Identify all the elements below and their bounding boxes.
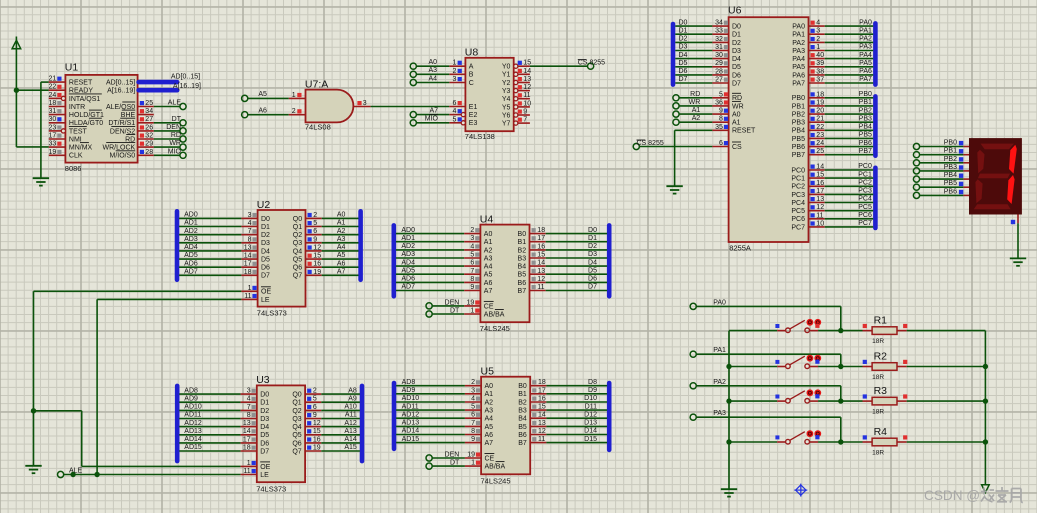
svg-text:A1: A1: [337, 220, 346, 227]
svg-text:D4: D4: [732, 56, 741, 63]
svg-text:NMI: NMI: [69, 136, 82, 143]
svg-text:PB4: PB4: [792, 128, 805, 135]
svg-text:MIO: MIO: [425, 116, 439, 123]
svg-text:31: 31: [49, 108, 57, 115]
svg-text:D6: D6: [732, 72, 741, 79]
svg-text:7: 7: [247, 404, 251, 411]
svg-text:AD4: AD4: [184, 244, 198, 251]
svg-text:6: 6: [470, 260, 474, 267]
svg-text:A5: A5: [337, 252, 346, 259]
svg-text:7: 7: [471, 420, 475, 427]
svg-text:2: 2: [816, 36, 820, 43]
svg-text:Q3: Q3: [293, 240, 302, 247]
svg-text:13: 13: [243, 420, 251, 427]
svg-text:8: 8: [470, 276, 474, 283]
svg-text:74LS373: 74LS373: [256, 484, 286, 493]
svg-text:23: 23: [49, 124, 57, 131]
svg-text:D3: D3: [588, 251, 597, 258]
svg-text:DT: DT: [450, 460, 460, 467]
svg-text:Q7: Q7: [292, 448, 301, 455]
svg-text:A0: A0: [337, 212, 346, 219]
svg-text:17: 17: [244, 261, 252, 268]
svg-text:3: 3: [248, 212, 252, 219]
svg-text:D7: D7: [732, 80, 741, 87]
svg-text:A[16..19]: A[16..19]: [173, 83, 201, 90]
svg-text:A13: A13: [344, 428, 357, 435]
svg-text:PA3: PA3: [859, 44, 872, 51]
svg-text:DT: DT: [172, 116, 182, 123]
svg-text:AD7: AD7: [401, 284, 415, 291]
svg-text:D1: D1: [679, 27, 688, 34]
svg-text:CE: CE: [485, 455, 495, 462]
svg-text:LE: LE: [261, 297, 270, 304]
svg-text:7: 7: [523, 117, 527, 124]
svg-text:Q7: Q7: [293, 273, 302, 280]
svg-text:PA0: PA0: [713, 299, 726, 306]
svg-text:25: 25: [816, 148, 824, 155]
svg-text:ALE: ALE: [168, 100, 182, 107]
svg-text:A11: A11: [345, 412, 357, 419]
svg-text:Y6: Y6: [502, 112, 511, 119]
svg-text:U3: U3: [256, 374, 270, 386]
svg-text:PB5: PB5: [859, 132, 872, 139]
svg-text:RESET: RESET: [69, 80, 93, 87]
svg-text:B3: B3: [518, 408, 527, 415]
svg-text:16: 16: [313, 261, 321, 268]
svg-text:INTA/QS1: INTA/QS1: [69, 96, 100, 103]
svg-text:A0: A0: [485, 383, 494, 390]
svg-text:1: 1: [247, 460, 251, 467]
svg-text:A[16..19]: A[16..19]: [107, 88, 135, 95]
svg-text:PB2: PB2: [792, 112, 805, 119]
svg-text:D8: D8: [588, 379, 597, 386]
svg-text:Y1: Y1: [502, 72, 511, 79]
svg-text:D5: D5: [679, 60, 688, 67]
svg-text:D15: D15: [584, 436, 597, 443]
svg-text:D5: D5: [588, 267, 597, 274]
svg-text:A7: A7: [337, 269, 346, 276]
svg-text:AD9: AD9: [184, 395, 198, 402]
svg-text:19: 19: [467, 452, 475, 459]
svg-text:B2: B2: [518, 247, 527, 254]
svg-text:D6: D6: [588, 276, 597, 283]
svg-text:AD14: AD14: [184, 436, 202, 443]
svg-text:20: 20: [816, 108, 824, 115]
svg-text:PC3: PC3: [858, 188, 872, 195]
svg-text:AD7: AD7: [184, 269, 198, 276]
svg-text:WR: WR: [732, 103, 744, 110]
svg-text:13: 13: [523, 76, 531, 83]
svg-text:A1: A1: [485, 391, 494, 398]
svg-text:WR: WR: [169, 140, 181, 147]
svg-text:30: 30: [49, 116, 57, 123]
svg-text:M/IO/S0: M/IO/S0: [110, 153, 136, 160]
svg-text:PA3: PA3: [713, 410, 726, 417]
svg-text:11: 11: [538, 436, 545, 443]
svg-text:AD[0..15]: AD[0..15]: [171, 74, 200, 81]
svg-text:AD15: AD15: [402, 436, 420, 443]
svg-text:PB1: PB1: [792, 103, 805, 110]
svg-text:1: 1: [471, 460, 475, 467]
svg-text:PA0: PA0: [859, 19, 872, 26]
svg-text:CLK: CLK: [69, 153, 83, 160]
svg-text:CS 8255: CS 8255: [637, 140, 664, 147]
svg-text:12: 12: [523, 84, 531, 91]
svg-text:PB0: PB0: [944, 140, 957, 147]
svg-text:D3: D3: [679, 44, 688, 51]
svg-text:A4: A4: [484, 264, 493, 271]
svg-text:R1: R1: [874, 315, 888, 327]
svg-text:D6: D6: [260, 440, 269, 447]
svg-text:D4: D4: [260, 424, 269, 431]
svg-text:D3: D3: [260, 416, 269, 423]
svg-text:A2: A2: [692, 115, 701, 122]
svg-text:AD1: AD1: [401, 235, 415, 242]
svg-text:5: 5: [313, 220, 317, 227]
svg-text:AD1: AD1: [184, 220, 198, 227]
svg-text:PC0: PC0: [791, 167, 805, 174]
svg-text:19: 19: [816, 99, 824, 106]
svg-text:D5: D5: [261, 256, 270, 263]
svg-text:12: 12: [313, 244, 321, 251]
svg-text:A3: A3: [485, 408, 494, 415]
svg-text:D4: D4: [261, 248, 270, 255]
svg-text:PA2: PA2: [713, 379, 726, 386]
svg-text:14: 14: [523, 68, 531, 75]
svg-text:A1: A1: [732, 120, 741, 127]
svg-text:A5: A5: [258, 91, 267, 98]
svg-text:PB1: PB1: [944, 148, 957, 155]
svg-text:DEN: DEN: [445, 299, 460, 306]
svg-text:B5: B5: [518, 424, 527, 431]
svg-text:12: 12: [816, 204, 824, 211]
svg-text:15: 15: [538, 404, 546, 411]
svg-text:B7: B7: [518, 440, 527, 447]
svg-text:28: 28: [715, 68, 723, 75]
svg-text:CSDN @: CSDN @: [924, 488, 980, 503]
svg-text:D9: D9: [588, 387, 597, 394]
svg-text:74LS08: 74LS08: [305, 123, 331, 132]
svg-text:A: A: [469, 64, 474, 71]
svg-text:AB/BA: AB/BA: [484, 311, 505, 318]
svg-text:4: 4: [452, 108, 456, 115]
svg-text:PC4: PC4: [858, 196, 872, 203]
svg-text:B6: B6: [518, 432, 527, 439]
svg-text:9: 9: [313, 412, 317, 419]
svg-text:PC5: PC5: [858, 204, 872, 211]
svg-text:13: 13: [537, 268, 545, 275]
svg-text:PA4: PA4: [859, 52, 872, 59]
svg-text:21: 21: [49, 76, 57, 83]
svg-text:A7: A7: [484, 288, 493, 295]
svg-text:28: 28: [145, 149, 153, 156]
svg-text:5: 5: [470, 252, 474, 259]
svg-text:AD15: AD15: [184, 444, 202, 451]
svg-text:10: 10: [523, 100, 531, 107]
svg-text:DEN: DEN: [445, 451, 460, 458]
svg-text:CS: CS: [732, 144, 742, 151]
svg-text:PB5: PB5: [792, 136, 805, 143]
svg-text:Y4: Y4: [502, 96, 511, 103]
svg-text:22: 22: [816, 124, 824, 131]
svg-text:AD3: AD3: [401, 251, 415, 258]
svg-text:PC0: PC0: [858, 163, 872, 170]
svg-text:Q4: Q4: [293, 248, 302, 255]
svg-text:B0: B0: [518, 231, 527, 238]
svg-text:A4: A4: [428, 75, 437, 82]
svg-text:Q2: Q2: [292, 408, 301, 415]
svg-text:16: 16: [538, 396, 546, 403]
svg-text:A0: A0: [484, 231, 493, 238]
svg-text:A2: A2: [484, 247, 493, 254]
svg-text:17: 17: [537, 235, 545, 242]
svg-text:8: 8: [471, 428, 475, 435]
svg-text:24: 24: [49, 92, 57, 99]
svg-text:8: 8: [719, 116, 723, 123]
svg-text:A6: A6: [337, 260, 346, 267]
svg-text:8255A: 8255A: [729, 243, 751, 252]
svg-text:6: 6: [719, 140, 723, 147]
svg-text:A2: A2: [485, 399, 494, 406]
svg-text:C: C: [469, 80, 474, 87]
svg-text:A1: A1: [692, 107, 701, 114]
svg-text:PA1: PA1: [859, 27, 872, 34]
svg-text:D6: D6: [679, 68, 688, 75]
svg-text:PB3: PB3: [792, 120, 805, 127]
svg-text:DT: DT: [450, 307, 460, 314]
svg-text:WR: WR: [689, 99, 701, 106]
svg-text:PA1: PA1: [713, 347, 726, 354]
svg-text:PA7: PA7: [792, 80, 805, 87]
svg-text:DEN: DEN: [166, 124, 181, 131]
svg-text:PC3: PC3: [791, 192, 805, 199]
svg-text:14: 14: [244, 253, 252, 260]
svg-text:6: 6: [313, 404, 317, 411]
svg-text:11: 11: [537, 284, 544, 291]
svg-text:U5: U5: [481, 366, 495, 378]
svg-text:U7:A: U7:A: [305, 78, 328, 90]
svg-text:A12: A12: [344, 420, 357, 427]
svg-text:38: 38: [816, 68, 824, 75]
svg-text:17: 17: [816, 188, 824, 195]
svg-text:25: 25: [145, 100, 153, 107]
svg-text:3: 3: [471, 387, 475, 394]
svg-text:18: 18: [244, 269, 252, 276]
svg-text:PC7: PC7: [791, 224, 805, 231]
svg-text:INTR: INTR: [69, 104, 85, 111]
svg-text:9: 9: [313, 236, 317, 243]
svg-text:LE: LE: [260, 472, 269, 479]
svg-text:4: 4: [470, 243, 474, 250]
svg-text:AD6: AD6: [184, 260, 198, 267]
svg-text:24: 24: [816, 140, 824, 147]
svg-text:3: 3: [363, 100, 367, 107]
svg-text:Q1: Q1: [293, 224, 302, 231]
svg-text:23: 23: [816, 132, 824, 139]
svg-text:PB5: PB5: [944, 180, 957, 187]
svg-text:MN/MX: MN/MX: [69, 145, 93, 152]
svg-text:74LS245: 74LS245: [481, 476, 511, 485]
svg-text:PC6: PC6: [791, 216, 805, 223]
svg-text:16: 16: [537, 243, 545, 250]
svg-text:D1: D1: [261, 224, 270, 231]
svg-text:A4: A4: [337, 244, 346, 251]
svg-text:3: 3: [816, 28, 820, 35]
svg-text:PB2: PB2: [859, 107, 872, 114]
svg-text:E1: E1: [469, 104, 478, 111]
svg-text:1: 1: [816, 44, 820, 51]
svg-text:34: 34: [715, 20, 723, 27]
svg-text:6: 6: [471, 412, 475, 419]
svg-text:D10: D10: [584, 395, 597, 402]
svg-text:Y7: Y7: [502, 121, 511, 128]
svg-text:10: 10: [816, 220, 824, 227]
svg-text:PB6: PB6: [859, 140, 872, 147]
svg-text:A0: A0: [428, 59, 437, 66]
svg-text:9: 9: [523, 109, 527, 116]
svg-text:5: 5: [719, 91, 723, 98]
svg-text:PB7: PB7: [859, 148, 872, 155]
svg-text:B1: B1: [518, 239, 527, 246]
svg-text:RD: RD: [690, 91, 700, 98]
svg-text:PA5: PA5: [859, 60, 872, 67]
svg-text:1: 1: [292, 92, 296, 99]
svg-text:PC7: PC7: [858, 220, 872, 227]
svg-text:AD3: AD3: [184, 236, 198, 243]
svg-text:A0: A0: [732, 112, 741, 119]
svg-text:Q2: Q2: [293, 232, 302, 239]
svg-text:D2: D2: [732, 40, 741, 47]
svg-text:PB4: PB4: [859, 124, 872, 131]
svg-text:27: 27: [715, 77, 723, 84]
svg-text:AD4: AD4: [401, 259, 415, 266]
svg-text:D1: D1: [732, 32, 741, 39]
svg-text:19: 19: [467, 299, 475, 306]
svg-text:3: 3: [470, 235, 474, 242]
svg-text:18R: 18R: [872, 450, 884, 457]
svg-text:A1: A1: [484, 239, 493, 246]
svg-text:D1: D1: [260, 400, 269, 407]
svg-text:D13: D13: [584, 420, 597, 427]
svg-text:AD13: AD13: [402, 420, 420, 427]
svg-text:74LS373: 74LS373: [257, 309, 287, 318]
svg-text:U1: U1: [65, 62, 79, 74]
svg-text:8: 8: [247, 412, 251, 419]
svg-text:PC2: PC2: [791, 184, 805, 191]
svg-text:B: B: [469, 72, 474, 79]
svg-text:B6: B6: [518, 280, 527, 287]
svg-text:AD8: AD8: [402, 379, 416, 386]
svg-text:17: 17: [538, 387, 546, 394]
svg-text:2: 2: [292, 108, 296, 115]
svg-text:D5: D5: [260, 432, 269, 439]
svg-text:12: 12: [313, 420, 321, 427]
svg-text:Y3: Y3: [502, 88, 511, 95]
svg-text:A5: A5: [485, 424, 494, 431]
svg-text:OE: OE: [260, 464, 270, 471]
svg-text:PB0: PB0: [859, 91, 872, 98]
svg-text:D7: D7: [260, 448, 269, 455]
svg-text:AD0: AD0: [401, 227, 415, 234]
svg-text:2: 2: [470, 227, 474, 234]
svg-text:AD11: AD11: [184, 412, 201, 419]
svg-text:12: 12: [537, 276, 545, 283]
svg-text:74LS138: 74LS138: [465, 132, 495, 141]
svg-text:15: 15: [313, 253, 321, 260]
svg-text:6: 6: [452, 100, 456, 107]
svg-text:16: 16: [313, 436, 321, 443]
svg-text:9: 9: [719, 108, 723, 115]
svg-text:RESET: RESET: [732, 128, 756, 135]
svg-text:11: 11: [244, 293, 251, 300]
svg-text:D0: D0: [679, 19, 688, 26]
svg-text:A6: A6: [484, 280, 493, 287]
svg-text:11: 11: [816, 212, 823, 219]
svg-text:4: 4: [471, 396, 475, 403]
svg-text:AD5: AD5: [184, 252, 198, 259]
svg-text:39: 39: [816, 60, 824, 67]
svg-text:18: 18: [538, 379, 546, 386]
svg-text:17: 17: [243, 436, 251, 443]
svg-text:Y2: Y2: [502, 80, 511, 87]
svg-text:PB6: PB6: [792, 144, 805, 151]
svg-text:PA1: PA1: [792, 32, 805, 39]
svg-text:D4: D4: [679, 52, 688, 59]
svg-text:D2: D2: [260, 408, 269, 415]
svg-text:4: 4: [248, 220, 252, 227]
svg-text:PB7: PB7: [792, 152, 805, 159]
svg-text:D14: D14: [584, 428, 597, 435]
svg-text:8086: 8086: [65, 164, 82, 173]
svg-text:2: 2: [471, 379, 475, 386]
svg-text:13: 13: [538, 420, 546, 427]
svg-text:14: 14: [537, 260, 545, 267]
svg-text:18: 18: [49, 100, 57, 107]
svg-text:Q1: Q1: [292, 400, 301, 407]
svg-text:30: 30: [715, 52, 723, 59]
svg-text:AD10: AD10: [402, 395, 420, 402]
svg-text:13: 13: [816, 196, 824, 203]
svg-text:3: 3: [452, 76, 456, 83]
svg-text:B7: B7: [518, 288, 527, 295]
svg-text:D0: D0: [260, 392, 269, 399]
svg-text:29: 29: [715, 60, 723, 67]
svg-text:AD0: AD0: [184, 212, 198, 219]
svg-text:32: 32: [145, 133, 153, 140]
svg-text:AD6: AD6: [401, 276, 415, 283]
svg-text:5: 5: [313, 396, 317, 403]
svg-text:PA7: PA7: [859, 76, 872, 83]
svg-text:18: 18: [537, 227, 545, 234]
svg-text:21: 21: [816, 116, 824, 123]
svg-text:Y5: Y5: [502, 104, 511, 111]
svg-text:6: 6: [313, 228, 317, 235]
svg-text:17: 17: [49, 133, 57, 140]
svg-text:A8: A8: [348, 387, 357, 394]
svg-text:A9: A9: [348, 395, 357, 402]
svg-text:A4: A4: [485, 416, 494, 423]
svg-text:AD12: AD12: [402, 411, 420, 418]
svg-text:AD2: AD2: [401, 243, 415, 250]
svg-text:U8: U8: [465, 47, 479, 59]
svg-text:PC6: PC6: [858, 212, 872, 219]
svg-text:AD10: AD10: [184, 404, 202, 411]
svg-text:A3: A3: [337, 236, 346, 243]
svg-text:18: 18: [816, 91, 824, 98]
svg-text:2: 2: [313, 388, 317, 395]
svg-text:B3: B3: [518, 255, 527, 262]
svg-text:A15: A15: [344, 444, 357, 451]
